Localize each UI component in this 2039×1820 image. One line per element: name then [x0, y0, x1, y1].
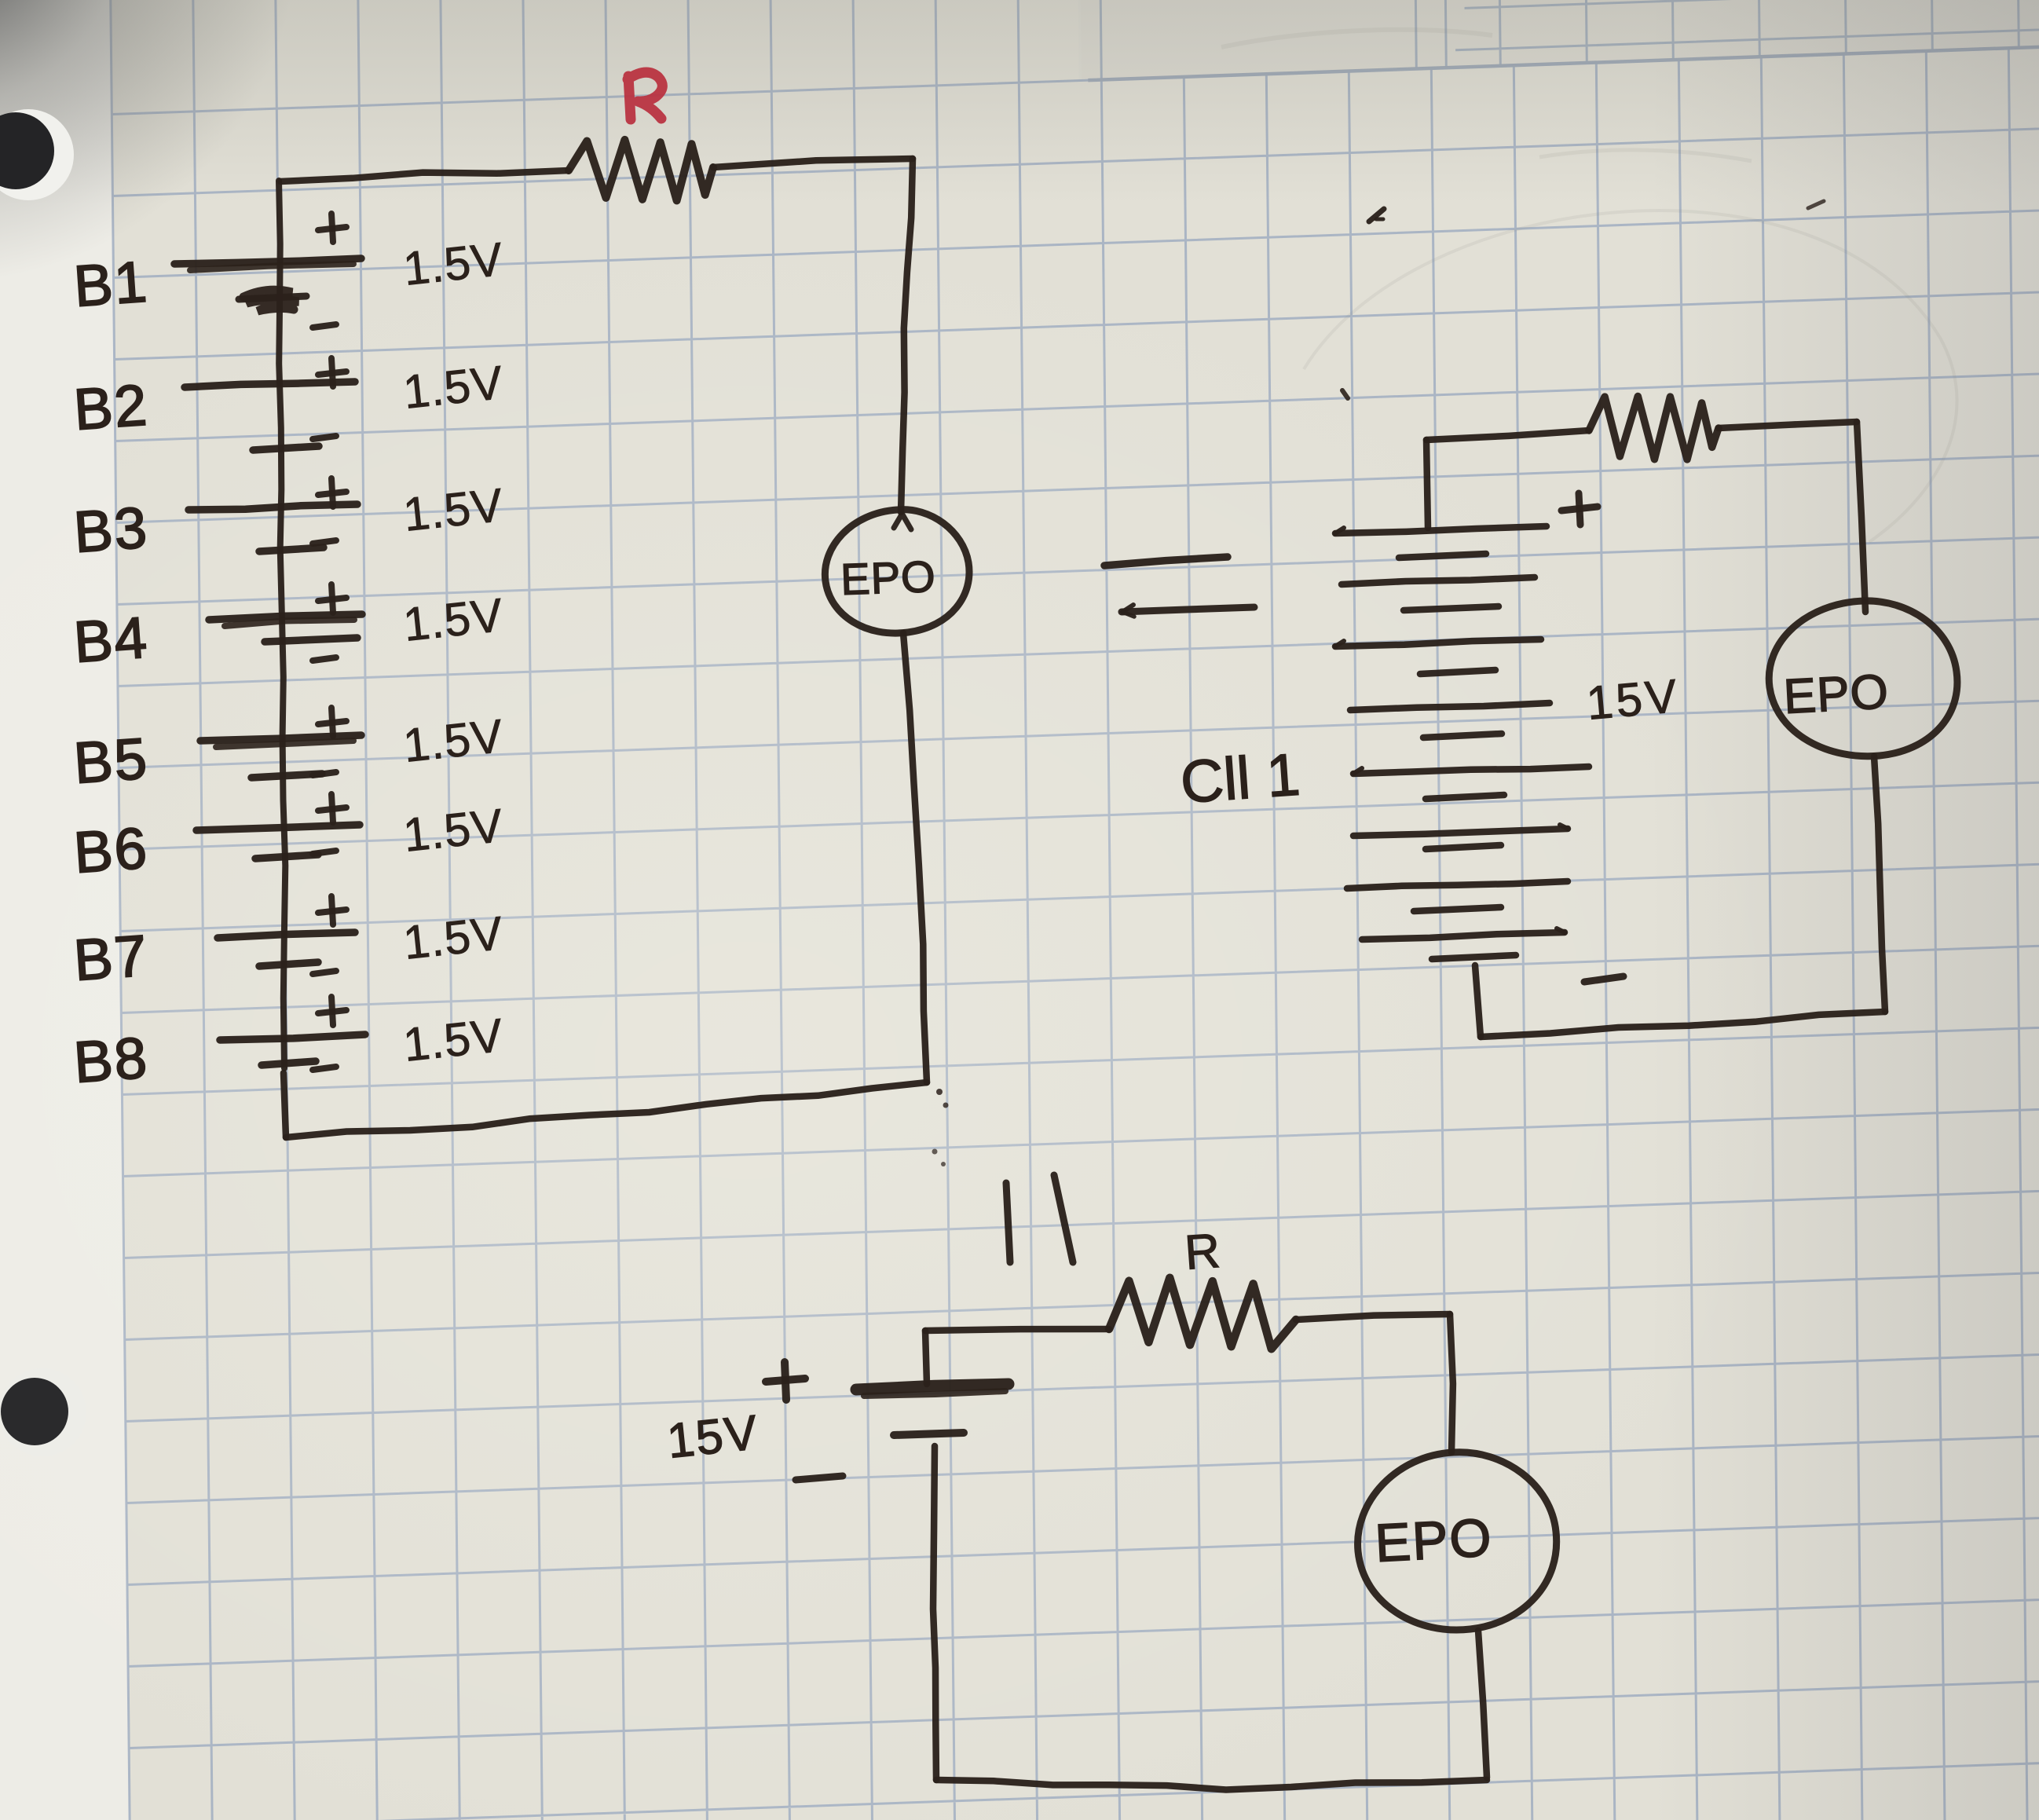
svg-text:1.5V: 1.5V [401, 478, 506, 541]
cell CU1 - sign [1584, 976, 1624, 982]
battery B2 negative plate [253, 446, 319, 450]
wire: stub up to battery B8 minus [284, 1073, 286, 1137]
battery B7 - sign [313, 971, 336, 974]
battery B7 positive plate [218, 932, 355, 938]
arrow hook at lamp top [894, 514, 911, 529]
battery B1 - sign [313, 324, 336, 328]
lamp EPO (bottom circuit) circle [1358, 1452, 1557, 1630]
svg-text:1.5V: 1.5V [401, 233, 506, 295]
svg-text:B6: B6 [71, 815, 150, 885]
equals sign lower stroke with arrow [1122, 607, 1254, 612]
wire: bottom return to battery B8 [286, 1082, 927, 1137]
resistor R (left circuit) zigzag [569, 140, 713, 201]
svg-text:B3: B3 [71, 495, 150, 565]
svg-text:B5: B5 [71, 726, 150, 796]
cell CU1 short plate 8 [1432, 955, 1516, 959]
battery B6 - sign [313, 851, 336, 854]
svg-text:Cll 1: Cll 1 [1178, 742, 1302, 816]
wire: lamp EPO down [903, 633, 927, 1082]
cell CU1 long plate 6 [1353, 829, 1568, 836]
battery B6 negative plate [255, 855, 318, 859]
battery B3 positive plate [189, 504, 357, 510]
cell CU1 long plate 8 [1362, 932, 1565, 939]
wire: bottom return (bottom circuit) [936, 1780, 1487, 1790]
battery B3 - sign [313, 540, 336, 544]
wire: left vertical up to battery - (bottom) [933, 1446, 936, 1780]
cell CU1 long plate 5 [1353, 767, 1589, 774]
wire: down to lamp EPO (right circuit) [1857, 422, 1865, 612]
svg-text:EPO: EPO [1374, 1507, 1494, 1573]
battery B2 + sign [318, 372, 346, 375]
cell CU1 long plate 4 [1350, 703, 1550, 710]
cell CU1 short plate 1 [1399, 554, 1486, 558]
wire: resistor to corner (bottom) [1296, 1314, 1450, 1320]
svg-text:1.5V: 1.5V [401, 1009, 506, 1071]
battery B4 - sign [313, 657, 336, 661]
battery B4 positive plate [209, 614, 362, 620]
cell CU1 long plate 2 [1342, 577, 1535, 584]
battery 15V + sign (bottom) [766, 1379, 805, 1382]
battery B5 - sign [313, 772, 336, 775]
svg-text:1.5V: 1.5V [401, 588, 506, 651]
wire: battery stack centre conductor [279, 181, 285, 1068]
wire: resistor to top-right corner [713, 159, 913, 167]
wire: right vertical down to lamp EPO [901, 159, 913, 512]
svg-text:B2: B2 [71, 372, 150, 442]
cell CU1 short plate 3 [1420, 670, 1495, 674]
resistor R (left circuit) value label R in red [628, 72, 662, 119]
wire: battery top to resistor R [280, 170, 569, 181]
lamp EPO (right circuit) circle [1769, 601, 1957, 756]
svg-text:B7: B7 [71, 923, 150, 993]
battery B6 + sign [318, 807, 346, 811]
battery 15V + plate (bottom circuit) [856, 1384, 1009, 1390]
wire: lamp EPO (bottom) down [1478, 1631, 1487, 1778]
cell CU1 short plate 5 [1426, 795, 1504, 799]
wire: battery 15V + to resistor (bottom) [925, 1329, 1109, 1331]
equals sign between circuits [1104, 557, 1228, 566]
battery 15V - plate (bottom circuit) [894, 1433, 964, 1435]
battery B1 positive plate [174, 258, 361, 264]
wire: lamp EPO (right) down [1874, 756, 1885, 1012]
cell CU1 long plate 3 [1335, 639, 1541, 646]
wire: cell CU1 top to resistor (right circuit) [1426, 430, 1589, 440]
battery B8 + sign [318, 1010, 346, 1013]
wire: down to lamp EPO (bottom) [1450, 1314, 1453, 1452]
svg-text:1.5V: 1.5V [401, 799, 506, 862]
svg-text:1.5V: 1.5V [401, 356, 506, 419]
svg-text:1.5V: 1.5V [401, 906, 506, 969]
svg-text:EPO: EPO [1782, 665, 1890, 724]
svg-text:B1: B1 [71, 249, 150, 319]
cell CU1 short plate 6 [1426, 845, 1501, 849]
battery B7 negative plate [259, 962, 318, 966]
lamp EPO (left circuit) circle [825, 510, 969, 633]
battery B6 positive plate [196, 825, 360, 830]
cell CU1 long plate 7 [1347, 881, 1568, 888]
battery B8 negative plate [262, 1061, 316, 1065]
svg-text:R: R [1183, 1224, 1221, 1280]
resistor (right circuit) zigzag [1589, 397, 1719, 460]
battery B5 + sign [318, 721, 346, 724]
svg-text:1.5V: 1.5V [401, 709, 506, 772]
battery B8 - sign [313, 1067, 336, 1070]
tally marks above bottom circuit [1006, 1183, 1010, 1262]
battery B7 + sign [318, 910, 346, 913]
cell CU1 long plate 1 [1335, 526, 1547, 533]
wire: stub down to cell CU1 + plate [1426, 440, 1428, 528]
ink speck ticks [1369, 209, 1384, 222]
cell CU1 short plate 4 [1423, 734, 1502, 738]
wire: stub up to cell CU1 bottom [1475, 965, 1481, 1037]
battery B4 + sign [318, 598, 346, 601]
svg-text:B8: B8 [71, 1025, 150, 1095]
cell CU1 + sign [1561, 507, 1598, 511]
svg-text:15V: 15V [1584, 669, 1682, 730]
svg-text:EPO: EPO [840, 551, 936, 604]
battery B2 positive plate [185, 382, 355, 387]
battery B3 + sign [318, 492, 346, 495]
faint pencil ghost marks (decorative) [1221, 30, 1957, 542]
battery B1 + sign [318, 227, 346, 230]
battery B1 negative plate [239, 296, 306, 299]
resistor R (bottom circuit) zigzag [1109, 1278, 1296, 1349]
battery 15V - sign (bottom) [796, 1476, 843, 1480]
cell CU1 short plate 2 [1404, 606, 1499, 610]
svg-text:15V: 15V [664, 1405, 761, 1469]
hole punch top-left [0, 109, 74, 200]
battery B5 positive plate [200, 735, 361, 741]
wire: bottom return (right circuit) [1481, 1012, 1885, 1037]
cell CU1 short plate 7 [1414, 907, 1501, 911]
battery B2 - sign [313, 436, 336, 439]
wire: stub down to battery + plate (bottom) [925, 1331, 927, 1384]
battery B4 negative plate [265, 638, 357, 642]
svg-text:B4: B4 [71, 605, 150, 675]
battery B5 negative plate [251, 774, 322, 778]
battery B3 negative plate [259, 547, 324, 551]
battery B8 positive plate [220, 1035, 365, 1040]
hole punch bottom-left [0, 1368, 86, 1456]
wire: resistor to top-right corner (right circuit) [1719, 422, 1857, 428]
